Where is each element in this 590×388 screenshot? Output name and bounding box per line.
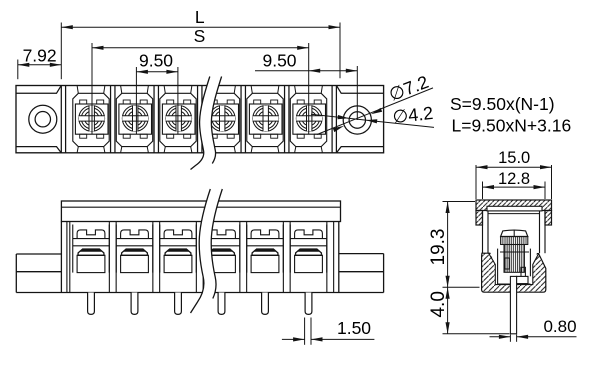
svg-text:7.92: 7.92 [23, 45, 57, 65]
svg-text:L: L [195, 7, 205, 27]
svg-text:4.0: 4.0 [428, 291, 449, 317]
svg-text:15.0: 15.0 [498, 149, 530, 167]
svg-text:19.3: 19.3 [428, 229, 449, 266]
svg-text:∅4.2: ∅4.2 [392, 103, 435, 127]
svg-text:1.50: 1.50 [337, 318, 371, 338]
svg-text:9.50: 9.50 [262, 51, 296, 71]
svg-text:S: S [194, 26, 206, 46]
svg-text:S=9.50x(N-1): S=9.50x(N-1) [450, 94, 555, 114]
svg-text:12.8: 12.8 [498, 170, 530, 188]
svg-text:0.80: 0.80 [543, 317, 576, 336]
svg-text:9.50: 9.50 [139, 51, 173, 71]
svg-text:L=9.50xN+3.16: L=9.50xN+3.16 [452, 116, 572, 136]
